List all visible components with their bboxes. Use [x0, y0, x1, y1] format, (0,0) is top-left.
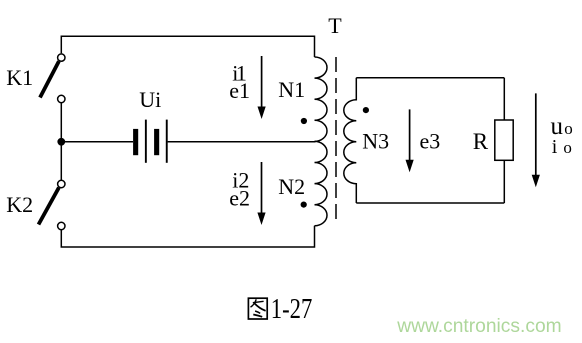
wire secondary top — [356, 77, 504, 79]
arrow i2/e2 — [257, 162, 265, 225]
svg-text:Ui: Ui — [139, 87, 161, 112]
arrow uo/io — [532, 93, 540, 187]
svg-text:1-27: 1-27 — [271, 294, 313, 325]
transformer core (dashed) — [335, 57, 337, 223]
transformer secondary winding N3 — [344, 78, 357, 203]
svg-text:www.cntronics.com: www.cntronics.com — [396, 315, 561, 337]
polarity dot N2 — [301, 202, 307, 208]
caption glyph 图 — [248, 298, 267, 319]
svg-text:K1: K1 — [6, 65, 33, 90]
polarity dot N1 — [301, 118, 307, 124]
wire battery to transformer center tap — [168, 141, 316, 143]
battery Ui plate 1 — [133, 129, 138, 155]
svg-text:o: o — [563, 138, 572, 157]
svg-text:e1: e1 — [229, 78, 250, 103]
wire left mid segment — [60, 103, 62, 180]
wire secondary right lower — [503, 160, 505, 203]
svg-text:o: o — [564, 119, 573, 138]
svg-text:i: i — [552, 136, 558, 158]
svg-text:N2: N2 — [278, 174, 305, 199]
svg-text:N1: N1 — [278, 77, 305, 102]
transformer primary winding N1 — [315, 57, 328, 141]
polarity dot N3 — [363, 107, 369, 113]
svg-text:T: T — [328, 13, 342, 38]
transformer primary winding N2 — [315, 141, 328, 225]
switch K2 — [39, 180, 66, 229]
svg-text:N3: N3 — [362, 128, 389, 153]
arrow e3 — [406, 109, 414, 172]
svg-text:e2: e2 — [229, 186, 250, 211]
battery Ui plate 2 — [145, 120, 147, 163]
switch K1 — [40, 54, 65, 103]
svg-text:R: R — [473, 129, 489, 154]
resistor R — [495, 120, 513, 160]
wire secondary right upper — [503, 78, 505, 120]
wire bottom rail — [61, 226, 314, 247]
wire top rail — [61, 36, 314, 57]
arrow i1/e1 — [258, 56, 266, 119]
wire secondary bottom — [356, 202, 504, 204]
svg-text:e3: e3 — [420, 128, 441, 153]
svg-text:K2: K2 — [6, 192, 33, 217]
battery Ui plate 3 — [154, 129, 159, 155]
battery Ui plate 4 — [166, 120, 168, 163]
junction dot — [57, 138, 65, 146]
wire junction to battery — [61, 141, 133, 143]
